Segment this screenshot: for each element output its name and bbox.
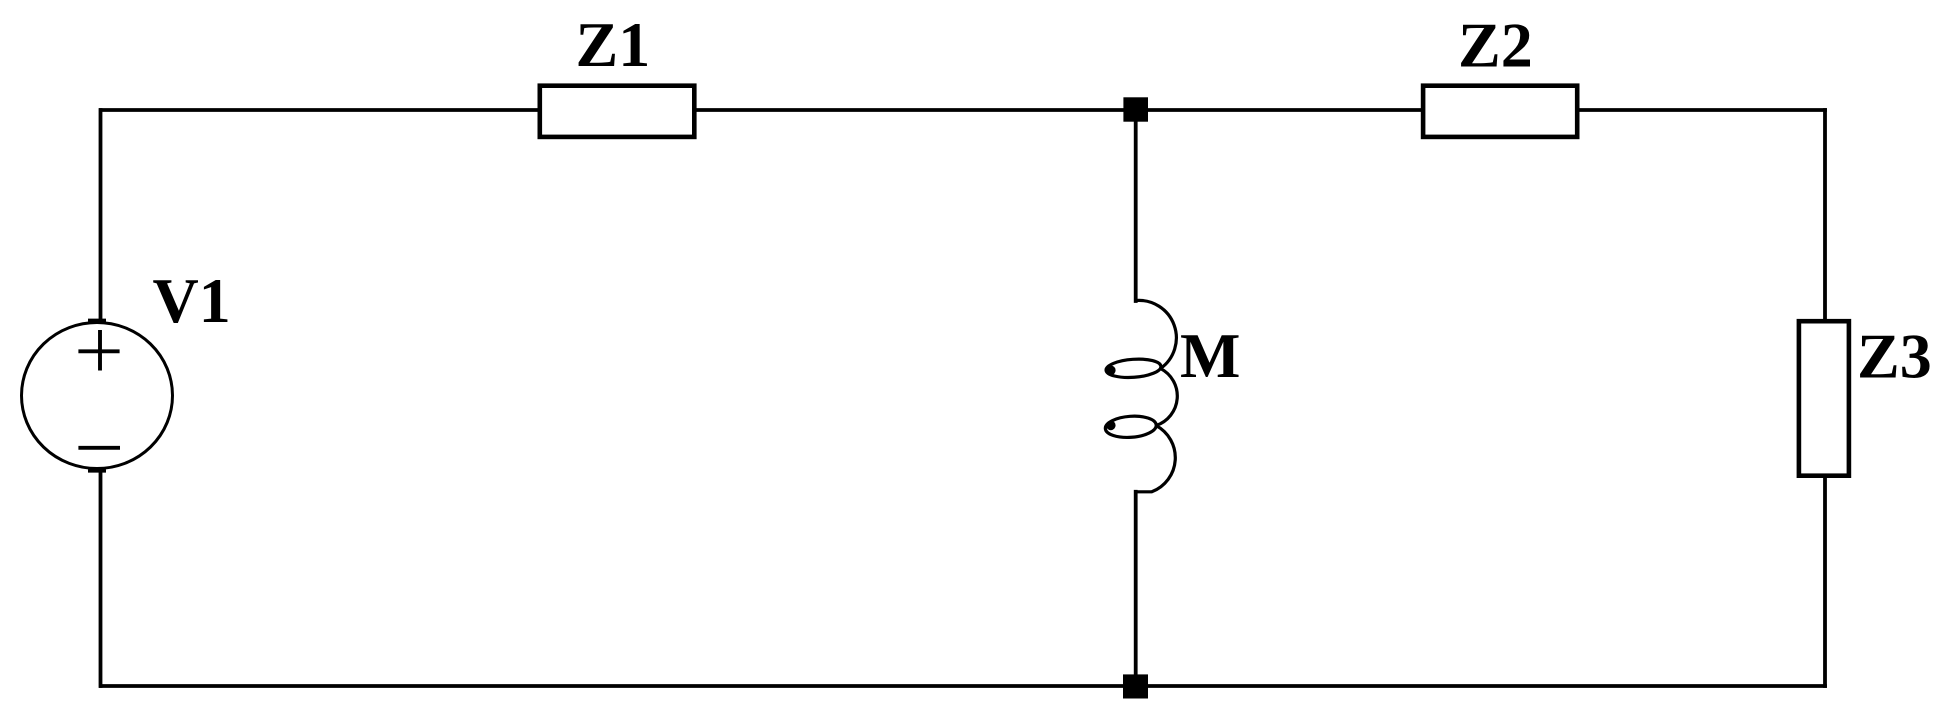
wire top [101, 108, 1825, 112]
V1 plus sign [78, 330, 119, 371]
svg-text:V1: V1 [153, 265, 231, 336]
wire left upper [99, 110, 103, 320]
inductor M loop dot 2 [1106, 421, 1116, 431]
V1 bottom terminal tick [88, 469, 106, 472]
resistor Z2 [1423, 86, 1577, 137]
inductor M coil arc 2 [1156, 369, 1177, 426]
resistor Z1 [540, 86, 695, 137]
wire left lower [99, 472, 103, 687]
inductor M loop ellipse 2 [1105, 415, 1157, 440]
svg-text:Z1: Z1 [576, 9, 651, 80]
svg-text:Z2: Z2 [1458, 10, 1533, 81]
wire middle upper [1134, 110, 1138, 301]
wire right [1823, 110, 1827, 686]
svg-text:Z3: Z3 [1857, 321, 1932, 392]
wire middle lower [1134, 492, 1138, 686]
V1 minus sign [78, 446, 120, 450]
resistor Z3 [1799, 321, 1849, 476]
node junction top [1123, 97, 1148, 121]
inductor M coil arc 3 [1136, 426, 1176, 492]
wire bottom [101, 684, 1825, 688]
inductor M loop dot 1 [1106, 366, 1116, 376]
inductor M coil arc 1 [1136, 300, 1177, 368]
V1 circle [22, 323, 173, 469]
svg-text:M: M [1180, 320, 1240, 391]
voltage source V1 [22, 320, 173, 471]
V1 top terminal tick [88, 319, 106, 322]
node junction bottom [1123, 674, 1148, 698]
inductor M loop ellipse 1 [1105, 357, 1161, 379]
